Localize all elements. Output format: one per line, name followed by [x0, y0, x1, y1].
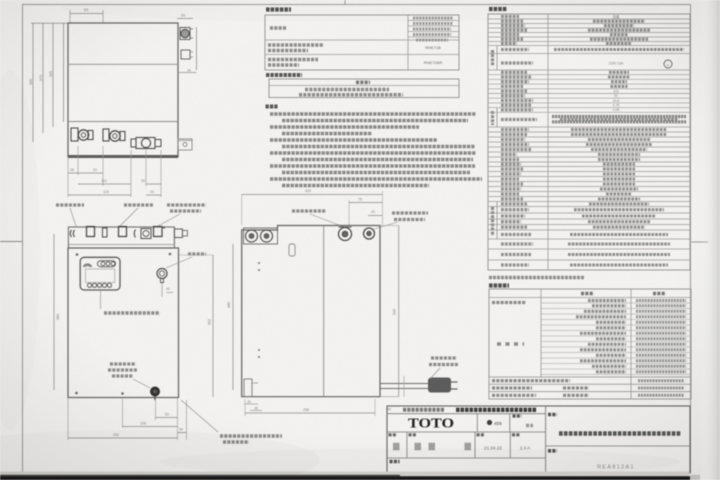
spec table content rows	[501, 14, 684, 265]
front view: weekly timer label with leader	[101, 290, 161, 313]
spec table group vertical labels	[491, 50, 494, 236]
side view: cable joint fitting	[364, 228, 375, 239]
top view: left dimension extension lines	[31, 23, 68, 142]
front view: relief valve label	[108, 364, 150, 388]
notes line 11	[270, 177, 482, 181]
parts table header row	[489, 294, 691, 298]
component table: row faucet metal RHE71B	[268, 45, 441, 51]
notes line 12	[282, 184, 429, 188]
spec table outer frame	[488, 14, 690, 270]
title block bottom row divider	[387, 457, 546, 459]
notes line 10	[282, 171, 470, 175]
price table	[269, 79, 459, 98]
top view: body outline	[68, 23, 178, 157]
parts table column lines	[541, 289, 631, 399]
side view: top dimension 20	[368, 210, 383, 216]
top view: bottom dark band	[68, 155, 178, 158]
front view: bottom extension lines	[68, 398, 187, 441]
top view: top right dimension 26	[177, 14, 193, 19]
centering mark right	[692, 241, 709, 243]
price table: price values	[299, 90, 403, 95]
label: water supply (G1/2) left	[120, 205, 153, 226]
side view: power cord	[380, 376, 458, 397]
top view: right dimension 34	[178, 27, 197, 73]
title block header row: safety law label	[403, 408, 537, 412]
front view: corner screws	[75, 253, 171, 395]
title block row divider	[387, 431, 546, 433]
top view: bottom dimension 115/20	[68, 190, 161, 195]
title block inspection cell	[510, 414, 533, 432]
top view: vertical dimension texts 390/370/305	[29, 71, 53, 85]
JIS note line	[489, 276, 585, 279]
side view: interior dots	[258, 262, 260, 358]
title block sign row labels	[389, 433, 521, 436]
drawing number REA812A1	[597, 465, 635, 471]
notes line 6	[282, 145, 475, 149]
side view: interior vertical line	[323, 226, 325, 397]
bottom dark bar	[0, 475, 700, 480]
component table: tank body label	[270, 26, 287, 30]
notes line 1	[270, 112, 476, 116]
notes line 4	[282, 132, 372, 136]
front view: left vertical dimension 380	[54, 234, 60, 390]
title block outer frame	[387, 406, 690, 473]
top view: lower right fitting (cable joint)	[181, 50, 193, 59]
spec table: dense row block	[552, 117, 686, 122]
title block right section divider	[545, 406, 547, 473]
notes line 3	[270, 125, 419, 129]
parts table bottom rows	[489, 377, 691, 395]
component table: row faucet metal RHE72BR	[268, 60, 442, 66]
label: hot water outlet (G1/2) right with strainer	[158, 205, 206, 226]
header: specifications	[489, 7, 507, 11]
title block drawing number label	[548, 449, 557, 453]
front view: power supply note leader and text	[181, 400, 282, 442]
top view: fitting group A (drain)	[71, 128, 93, 141]
top view: fitting group B (water inlet)	[103, 129, 125, 141]
notes line 9	[270, 164, 475, 168]
top view: fitting group C (hot water outlet)	[131, 138, 161, 149]
top view: upper right fitting (stop valve)	[180, 28, 193, 40]
front view: hanger dimension 40	[162, 283, 173, 297]
front view: right cable gland on strip	[174, 229, 187, 238]
side view: cable joint label	[374, 213, 428, 229]
front view: bottom dimension 52	[156, 413, 178, 418]
front view: right vertical dimension 302	[179, 255, 214, 397]
parts table left labels	[492, 303, 526, 345]
notes line 7	[270, 151, 476, 155]
spec table row lines	[488, 19, 690, 260]
title block sign row columns	[407, 432, 510, 458]
notes line 8	[282, 158, 473, 162]
title block name/number divider	[546, 445, 690, 447]
side view: stop valve label	[292, 211, 344, 227]
component parts table	[265, 15, 459, 70]
label: drain plug (G1/2) left	[56, 205, 84, 226]
front view: strip fittings	[70, 226, 165, 238]
side view: body outline	[242, 226, 380, 397]
header: price	[266, 73, 302, 77]
top view: bottom extension lines	[68, 146, 161, 197]
parts table middle names and part numbers	[576, 301, 686, 372]
side view: wall bracket fittings (two rings)	[244, 228, 278, 244]
side view: bottom-left wall bracket	[244, 379, 262, 411]
front view: body outline	[68, 248, 179, 398]
right photo edge gradient	[700, 0, 720, 480]
top view: inner horizontal line lower	[68, 121, 178, 123]
header: component parts	[266, 7, 291, 11]
title block line under header	[387, 413, 546, 415]
side view: bottom dimension 258	[245, 399, 391, 416]
top view: top dimension 83	[70, 8, 103, 23]
bottom photo edge shadow	[0, 472, 689, 477]
title block scale	[520, 446, 531, 451]
centering mark top	[344, 0, 346, 5]
front view: top connection strip	[68, 227, 174, 248]
price table: heading row	[356, 81, 370, 85]
side view: top dimension 320	[242, 189, 383, 225]
side view: right vertical dimension 390	[380, 226, 399, 397]
top view: bottom dimension 101	[78, 179, 161, 184]
TOTO logo	[408, 416, 454, 431]
spec table group column	[496, 46, 498, 240]
spec table label/value divider	[547, 14, 549, 270]
notes heading	[266, 105, 278, 109]
front view: through-hole label	[166, 254, 206, 268]
title block date	[484, 446, 502, 451]
frame bottom faint line	[23, 472, 691, 474]
side view: stop valve fitting	[339, 227, 352, 241]
front view: hanger keyhole	[157, 269, 167, 283]
notes line 2	[282, 119, 468, 123]
parts table outer frame	[489, 289, 691, 399]
top view: right mounting tab	[178, 139, 192, 150]
title block product name	[559, 431, 681, 436]
side view: top dimension 75	[349, 198, 383, 227]
side view: slot	[289, 244, 295, 256]
centering mark left	[0, 241, 23, 243]
side view: left vertical dimension	[227, 244, 233, 390]
title block stamp cell	[477, 414, 502, 432]
notes line 5	[270, 138, 437, 142]
title block product name label	[548, 413, 557, 417]
front view: bottom dimension 252 / 30	[68, 428, 187, 439]
parts table row lines	[541, 303, 691, 375]
title block signature stamps	[393, 443, 471, 451]
top view: bottom dimension row 28/20	[68, 168, 103, 173]
title block bottom-left label	[390, 460, 400, 464]
component table: part numbers column	[413, 18, 453, 40]
spec table: plug approval circle	[664, 60, 672, 68]
side view: power cord label	[429, 358, 459, 379]
front view: bottom dimension 126	[123, 422, 178, 427]
header: parts list	[489, 283, 509, 287]
front view: control panel U1	[80, 257, 120, 290]
front view: drain valve (dark circle)	[150, 387, 160, 401]
top view: inner horizontal line upper	[68, 63, 178, 65]
